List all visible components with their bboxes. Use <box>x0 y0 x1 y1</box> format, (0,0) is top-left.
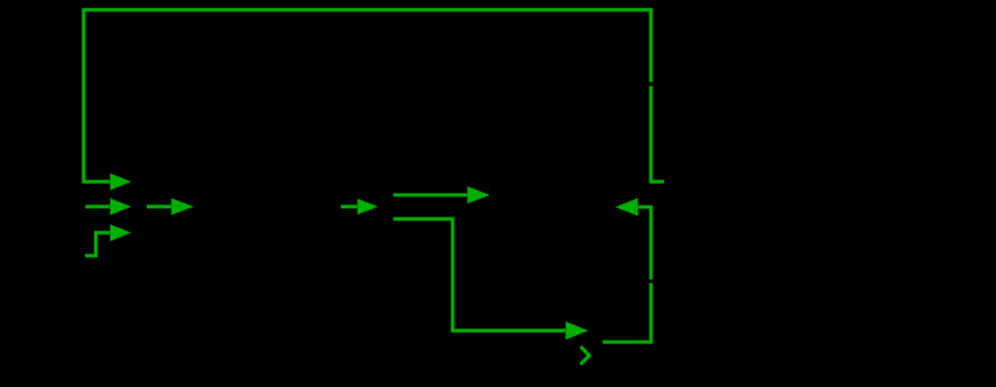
wire demux output 2 down and right to mux input <box>393 219 565 331</box>
arrowhead into demux <box>357 199 378 215</box>
arrowhead into controller block <box>171 198 194 215</box>
wire mux output lower segment up to hop <box>603 283 652 342</box>
arrowhead left-pointing into flipped block <box>615 198 638 216</box>
wire mux output upper segment into left-pointing arrow <box>638 207 651 280</box>
wire sum output tail <box>147 205 172 209</box>
unconnected mux port chevron <box>581 347 590 365</box>
arrowhead into sum input 1 <box>110 173 131 190</box>
arrowhead demux output 2 into mux input 1 <box>566 321 589 339</box>
wire input arrow 2 tail <box>85 205 110 209</box>
wire demux input tail <box>341 205 358 209</box>
wire feedback right drop below hop, with stub into plant block <box>651 86 664 182</box>
wire demux output 1 tail <box>393 193 467 197</box>
arrowhead into sum input 3 <box>110 224 131 241</box>
arrowhead demux output 1 into block <box>467 186 490 203</box>
wire feedback loop: top rail and left drop into summing junction input 1 <box>84 10 651 182</box>
wire input 3 from lower source block <box>85 233 110 256</box>
arrowhead into sum input 2 <box>110 198 131 215</box>
